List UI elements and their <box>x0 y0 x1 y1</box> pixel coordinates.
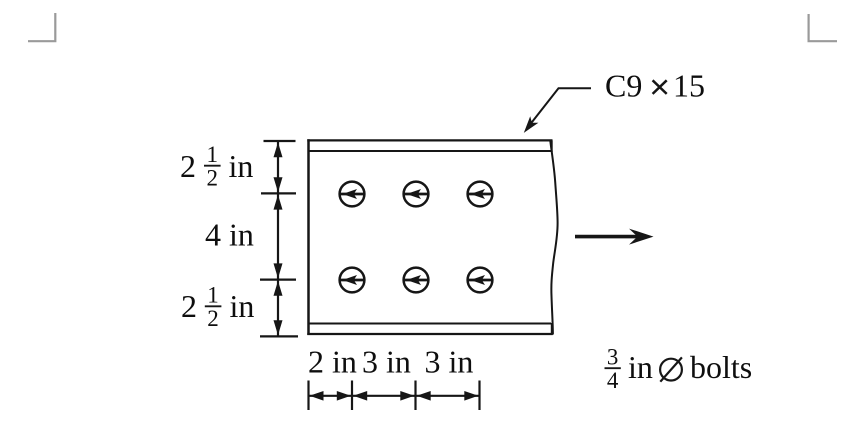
svg-text:4: 4 <box>607 368 619 393</box>
svg-text:2: 2 <box>180 148 196 184</box>
svg-text:2 in: 2 in <box>308 344 357 380</box>
svg-text:1: 1 <box>207 283 219 308</box>
svg-text:1: 1 <box>207 142 219 167</box>
svg-text:3: 3 <box>607 345 619 370</box>
svg-text:in: in <box>229 148 254 184</box>
svg-text:2: 2 <box>207 306 219 331</box>
svg-text:2: 2 <box>207 166 219 191</box>
svg-text:4 in: 4 in <box>205 216 254 252</box>
svg-text:bolts: bolts <box>690 349 752 385</box>
svg-text:15: 15 <box>673 68 705 104</box>
svg-text:2: 2 <box>181 288 197 324</box>
svg-text:C9: C9 <box>605 68 642 104</box>
svg-text:3 in: 3 in <box>425 344 474 380</box>
svg-text:in: in <box>628 349 653 385</box>
svg-text:in: in <box>230 288 255 324</box>
svg-text:3 in: 3 in <box>362 344 411 380</box>
